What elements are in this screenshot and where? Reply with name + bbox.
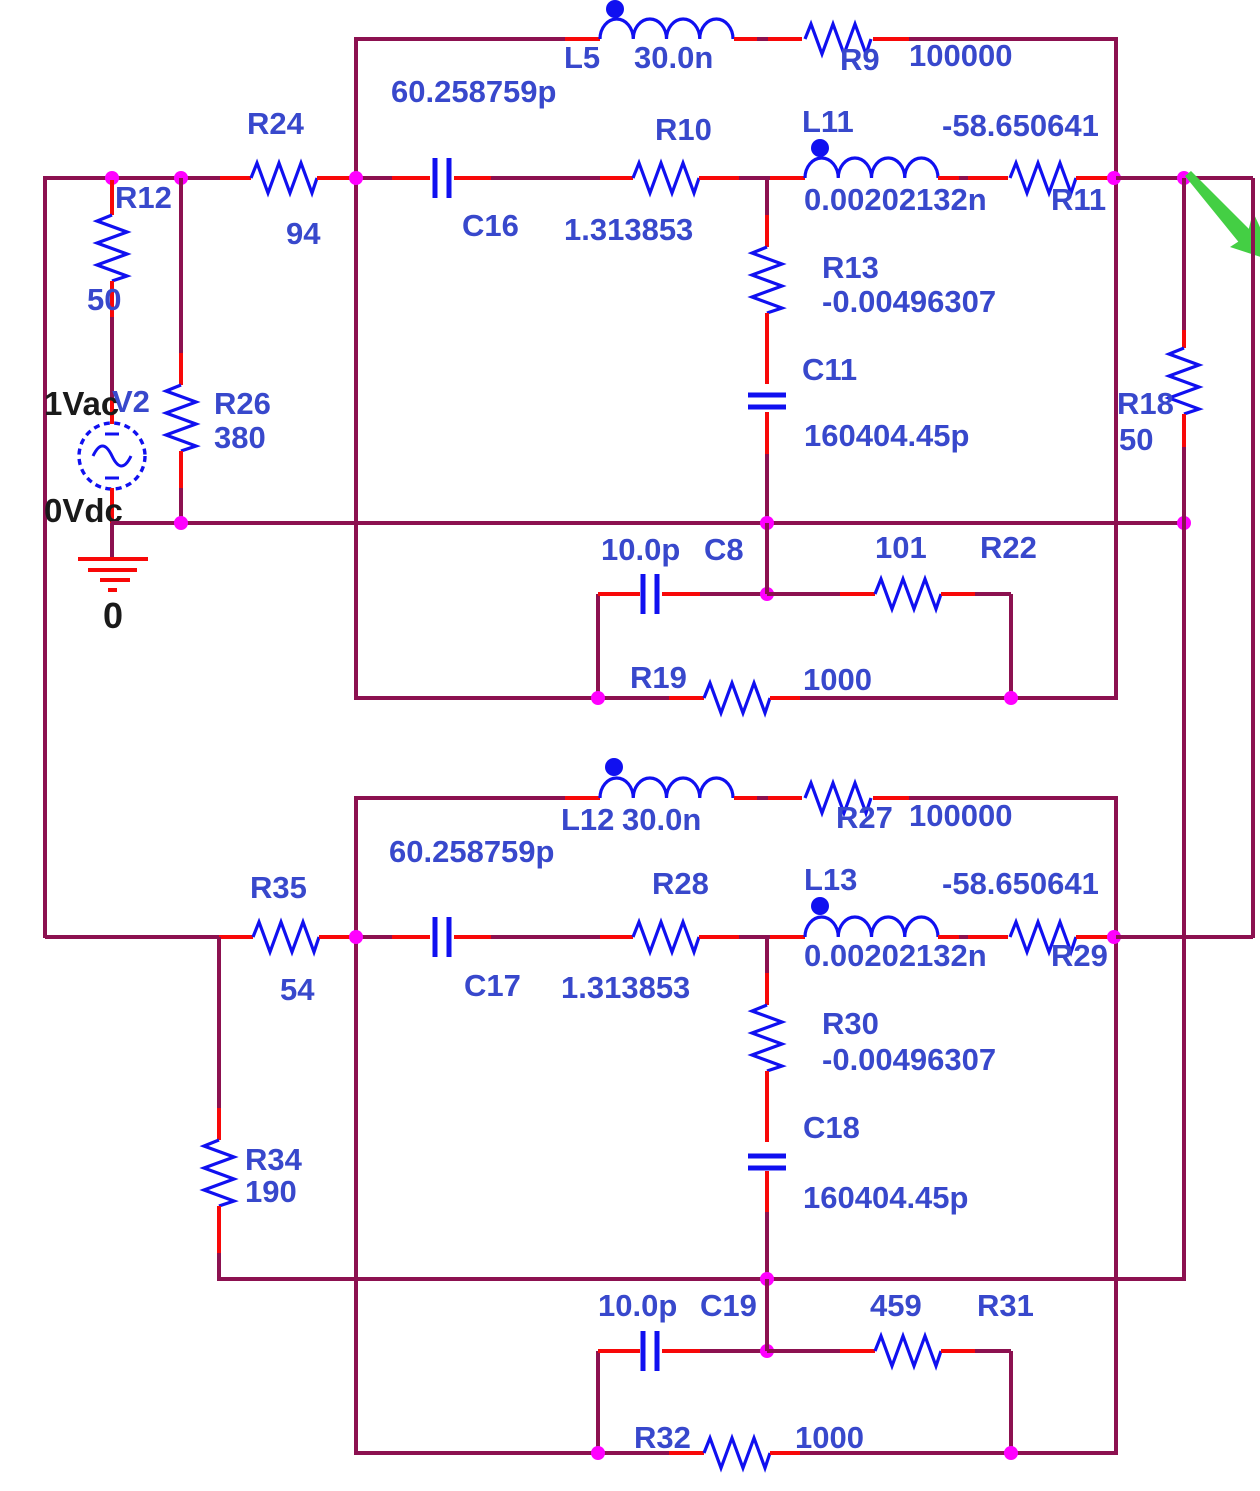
wire: top-left row y=178 [43, 176, 222, 180]
resistor R27 [802, 783, 909, 813]
svg-text:1Vac: 1Vac [44, 385, 119, 422]
svg-text:0: 0 [103, 595, 123, 636]
inductor L13 polarity dot [811, 897, 829, 915]
svg-text:R24: R24 [247, 106, 305, 141]
svg-text:R13: R13 [822, 250, 879, 285]
inductor L5 polarity dot [606, 0, 624, 18]
resistor R32 [669, 1438, 800, 1468]
node: junction bottom main row at box right edge [1107, 930, 1121, 944]
inductor L11 [770, 158, 1010, 189]
svg-text:L11: L11 [802, 104, 854, 139]
resistor R10 [600, 163, 739, 193]
svg-text:0.00202132n: 0.00202132n [804, 938, 987, 973]
node: junction at R26 top [174, 171, 188, 185]
svg-text:R32: R32 [634, 1420, 691, 1455]
wire: bottom main row to outer right [1116, 935, 1253, 939]
svg-text:30.0n: 30.0n [622, 802, 701, 837]
wire: bottom main row [356, 935, 1114, 939]
node: junction inner loop right at R19 row [1004, 691, 1018, 705]
resistor R31 [767, 1336, 1011, 1366]
wire: R18 column lower part [1182, 523, 1186, 1279]
svg-text:R29: R29 [1051, 938, 1108, 973]
node: junction at R18 top [1177, 171, 1191, 185]
capacitor C16 [392, 158, 491, 198]
inductor L13 [770, 917, 1010, 948]
inductor L5 [565, 19, 803, 50]
svg-text:1.313853: 1.313853 [561, 970, 690, 1005]
svg-text:459: 459 [870, 1288, 922, 1323]
svg-text:L13: L13 [804, 862, 857, 897]
node: junction inner loop left at R19 row [591, 691, 605, 705]
wire: inner loop right edge (bottom) [1009, 1351, 1013, 1453]
svg-text:R9: R9 [840, 42, 880, 77]
svg-text:R18: R18 [1117, 386, 1174, 421]
capacitor C11 [748, 395, 786, 523]
wire: main row to outer right [1116, 176, 1253, 180]
node: junction C18 bottom [760, 1272, 774, 1286]
resistor R11 [1008, 163, 1112, 193]
svg-text:30.0n: 30.0n [634, 40, 713, 75]
node: junction C19 row and C18 column [760, 1344, 774, 1358]
svg-text:101: 101 [875, 530, 927, 565]
svg-text:R35: R35 [250, 870, 307, 905]
resistor R29 [1008, 922, 1112, 952]
svg-text:C17: C17 [464, 968, 521, 1003]
svg-text:R12: R12 [115, 180, 172, 215]
capacitor C17 [392, 917, 491, 957]
svg-text:0.00202132n: 0.00202132n [804, 182, 987, 217]
wire: bottom row y=1279 [219, 1277, 1184, 1281]
resistor R28 [600, 922, 739, 952]
wire: R18 column end [1182, 1279, 1186, 1281]
resistor R26 [166, 178, 196, 523]
svg-text:10.0p: 10.0p [601, 532, 680, 567]
wire: C18 column to C19 row [765, 1279, 769, 1351]
svg-text:60.258759p: 60.258759p [389, 834, 554, 869]
svg-text:R30: R30 [822, 1006, 879, 1041]
svg-text:50: 50 [87, 282, 121, 317]
svg-text:C8: C8 [704, 532, 744, 567]
resistor R34 [204, 937, 234, 1281]
wire: C11 column to C8 row [765, 523, 769, 594]
resistor R12 [97, 180, 127, 424]
svg-text:160404.45p: 160404.45p [803, 1180, 968, 1215]
wire: inner loop left edge (top) [596, 594, 600, 698]
svg-text:R27: R27 [836, 800, 893, 835]
node: junction C11 bottom [760, 516, 774, 530]
voltage source V2 (VAC) [79, 400, 145, 523]
svg-text:1.313853: 1.313853 [564, 212, 693, 247]
svg-text:R22: R22 [980, 530, 1037, 565]
capacitor C18 [748, 1156, 786, 1281]
svg-text:380: 380 [214, 420, 266, 455]
svg-text:50: 50 [1119, 422, 1153, 457]
svg-text:190: 190 [245, 1174, 297, 1209]
svg-text:C19: C19 [700, 1288, 757, 1323]
node: junction R26 bottom [174, 516, 188, 530]
resistor R13 [752, 178, 782, 384]
node: junction at R12 top [105, 171, 119, 185]
svg-text:C11: C11 [802, 352, 857, 387]
resistor R22 [767, 579, 1011, 609]
resistor R18 [1169, 178, 1199, 523]
svg-text:C18: C18 [803, 1110, 860, 1145]
svg-text:-0.00496307: -0.00496307 [822, 284, 996, 319]
node: junction inner loop right at R32 row [1004, 1446, 1018, 1460]
svg-text:L5: L5 [564, 40, 600, 75]
node: junction ground row at R18 column [1177, 516, 1191, 530]
ground symbol 0 [78, 523, 148, 590]
svg-text:-0.00496307: -0.00496307 [822, 1042, 996, 1077]
resistor R9 [802, 24, 909, 54]
svg-text:160404.45p: 160404.45p [804, 418, 969, 453]
resistor R24 [220, 163, 354, 193]
wire: ground row y=523 [111, 521, 1184, 525]
svg-text:R11: R11 [1051, 182, 1106, 217]
node: junction main row at top box left edge [349, 171, 363, 185]
svg-text:-58.650641: -58.650641 [942, 866, 1099, 901]
wire: inner loop right edge (top) [1009, 594, 1013, 698]
capacitor C19 [598, 1331, 767, 1371]
resistor R30 [752, 937, 782, 1142]
wire: bottom feed row y=937 [45, 935, 222, 939]
svg-text:R31: R31 [977, 1288, 1034, 1323]
wire: top box outline [356, 39, 1116, 698]
inductor L12 polarity dot [605, 758, 623, 776]
wire: top main row [356, 176, 1114, 180]
node: junction C8 row and C11 column [760, 587, 774, 601]
resistor R35 [219, 922, 354, 952]
wire: outer right vertical [1251, 178, 1255, 938]
inductor L12 [565, 778, 803, 809]
svg-text:94: 94 [286, 216, 321, 251]
svg-text:R28: R28 [652, 866, 709, 901]
svg-text:L12: L12 [561, 802, 614, 837]
svg-text:R10: R10 [655, 112, 712, 147]
node: junction main row at top box right edge [1107, 171, 1121, 185]
svg-text:54: 54 [280, 972, 315, 1007]
node: junction bottom row at bottom box left edge [349, 930, 363, 944]
svg-text:1000: 1000 [795, 1420, 864, 1455]
svg-text:R34: R34 [245, 1142, 303, 1177]
svg-text:60.258759p: 60.258759p [391, 74, 556, 109]
inductor L11 polarity dot [811, 139, 829, 157]
node: junction inner loop left at R32 row [591, 1446, 605, 1460]
svg-text:1000: 1000 [803, 662, 872, 697]
capacitor C8 [598, 574, 767, 614]
svg-text:V2: V2 [112, 384, 150, 419]
svg-text:-58.650641: -58.650641 [942, 108, 1099, 143]
svg-text:10.0p: 10.0p [598, 1288, 677, 1323]
svg-text:100000: 100000 [909, 798, 1012, 833]
svg-text:100000: 100000 [909, 38, 1012, 73]
svg-text:R26: R26 [214, 386, 271, 421]
resistor R19 [669, 683, 800, 713]
probe marker (green arrow) [1185, 171, 1253, 245]
svg-text:C16: C16 [462, 208, 519, 243]
svg-text:R19: R19 [630, 660, 687, 695]
wire: bottom box outline [356, 798, 1116, 1453]
wire: outer left vertical [43, 176, 47, 938]
wire: inner loop left edge (bottom) [596, 1351, 600, 1453]
